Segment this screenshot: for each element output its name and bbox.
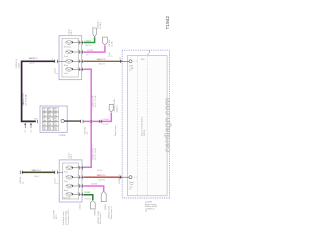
off-page connector (violet, down) xyxy=(101,191,106,202)
svg-text:CLS22: CLS22 xyxy=(87,50,94,52)
bulb park (bottom box) xyxy=(64,166,84,174)
svg-text:Reverse: Reverse xyxy=(64,46,72,48)
wire RD stop/turn (bottom, to BCM) xyxy=(84,176,123,178)
svg-text:C1: C1 xyxy=(25,130,27,132)
bulb stop/turn (top box) xyxy=(57,59,84,67)
svg-text:SBB27 14: SBB27 14 xyxy=(97,175,107,177)
fuse box left pin tick xyxy=(37,120,39,123)
fuse detail box F38 xyxy=(40,106,67,132)
fuse box pin circle xyxy=(61,119,64,122)
inline connector stub 2 xyxy=(30,123,33,133)
wire VT (fuse box to off-page, horizontal) xyxy=(83,113,111,122)
svg-text:19-LB 4: 19-LB 4 xyxy=(116,105,118,113)
svg-text:CLS54: CLS54 xyxy=(103,119,110,121)
BCM inner box xyxy=(127,56,167,196)
svg-text:30: 30 xyxy=(147,54,149,56)
wire GN reverse (top) xyxy=(84,37,95,42)
BCM pin circle top (pin 12) xyxy=(129,60,132,63)
svg-text:F28: F28 xyxy=(48,123,51,125)
bulb turn (top box) xyxy=(64,67,84,75)
svg-text:CLS23: CLS23 xyxy=(91,184,98,186)
wire VT stop (bottom, to off-page down) xyxy=(84,186,104,191)
svg-text:Connector C4113: Connector C4113 xyxy=(67,209,70,225)
BCM internal dashed line 2 xyxy=(146,56,148,196)
svg-text:Body Control Module: Body Control Module xyxy=(141,116,144,136)
svg-text:SBB27 14: SBB27 14 xyxy=(32,170,42,172)
off-page connector (violet, mid up) xyxy=(109,104,113,112)
svg-text:GN-O: GN-O xyxy=(34,176,40,178)
svg-text:F27: F27 xyxy=(54,123,57,125)
wire BN stop (top, to BCM) xyxy=(84,60,123,62)
top box right pin ticks xyxy=(80,41,83,71)
svg-text:PK-J: PK-J xyxy=(71,154,73,158)
junction node xyxy=(90,120,92,122)
wire VT park (top) xyxy=(84,46,105,53)
pin ticks mid wire xyxy=(99,120,101,123)
svg-text:Reverse: Reverse xyxy=(63,197,71,199)
top lamp assembly inner box xyxy=(62,38,78,77)
inline connector stub 1 xyxy=(24,123,27,133)
svg-text:F35: F35 xyxy=(43,113,46,115)
svg-text:1: 1 xyxy=(92,26,93,28)
svg-text:S4054: S4054 xyxy=(105,203,107,210)
svg-text:F26: F26 xyxy=(43,127,46,129)
bottom lamp assembly outer box xyxy=(59,160,82,202)
off-page connector (violet, up) xyxy=(103,37,108,45)
svg-text:19-LB: 19-LB xyxy=(111,41,113,47)
svg-text:CLS34: CLS34 xyxy=(85,40,92,42)
bottom box right pin ticks xyxy=(80,166,83,196)
svg-text:GN-OG: GN-OG xyxy=(85,45,92,47)
off-page connector (green, up) xyxy=(93,28,96,37)
svg-text:1: 1 xyxy=(78,175,79,177)
svg-text:4: 4 xyxy=(78,50,79,52)
svg-text:12: 12 xyxy=(119,58,121,60)
svg-text:GN-OG: GN-OG xyxy=(85,198,92,200)
bulb turn (bottom box) xyxy=(57,172,84,183)
svg-text:Stop Lamps: Stop Lamps xyxy=(114,125,117,136)
bulb park (top box) xyxy=(64,50,84,58)
BCM pin circle bottom xyxy=(129,176,132,179)
svg-text:F24: F24 xyxy=(54,127,57,129)
BCM pin dashed stub top xyxy=(132,60,137,62)
svg-text:C2280F: C2280F xyxy=(59,135,67,137)
svg-text:4: 4 xyxy=(94,189,95,191)
wire VT turn (top, down) xyxy=(84,69,92,167)
svg-text:F30: F30 xyxy=(54,118,57,120)
pin tick at BCM bottom entry xyxy=(119,176,121,179)
bulb reverse (top box) xyxy=(64,41,84,49)
svg-text:F38: F38 xyxy=(43,109,46,111)
pin tick at BCM top entry xyxy=(119,60,121,63)
svg-text:Stop Lamps 4: Stop Lamps 4 xyxy=(110,206,113,219)
svg-text:1: 1 xyxy=(78,59,79,61)
svg-text:C2: C2 xyxy=(31,130,33,132)
svg-text:6: 6 xyxy=(78,192,79,194)
svg-text:GY-O: GY-O xyxy=(30,63,35,65)
wire GN-O feed (olive, bottom left) xyxy=(22,171,55,173)
svg-text:F34: F34 xyxy=(48,113,51,115)
fuse box output stub xyxy=(64,120,80,122)
svg-text:F37: F37 xyxy=(48,109,51,111)
BCM internal dashed line 1 xyxy=(136,56,138,196)
svg-text:T1942: T1942 xyxy=(165,16,171,30)
bulb stop (bottom box) xyxy=(64,184,84,192)
svg-text:F31: F31 xyxy=(48,118,51,120)
top box left pin tick xyxy=(55,60,58,63)
svg-text:Turn: Turn xyxy=(64,181,68,183)
svg-text:Park: Park xyxy=(64,172,68,174)
off-page connector (green, down) xyxy=(90,200,95,209)
pin ticks after fuse box xyxy=(80,120,82,123)
svg-text:F38: F38 xyxy=(34,119,37,121)
BCM module U1 (outer dotted box) xyxy=(122,50,169,198)
svg-text:Turn: Turn xyxy=(64,73,68,75)
svg-text:12: 12 xyxy=(129,70,131,72)
svg-text:Rev Lamps 6: Rev Lamps 6 xyxy=(100,211,102,224)
svg-text:F29: F29 xyxy=(43,123,46,125)
svg-text:SBB38 12: SBB38 12 xyxy=(29,58,39,60)
svg-text:19-LB: 19-LB xyxy=(97,170,103,172)
bulb reverse (bottom box) xyxy=(63,192,84,199)
svg-text:3: 3 xyxy=(78,166,79,168)
svg-text:BU-OG: BU-OG xyxy=(99,180,106,182)
svg-text:GY-O 19-LB: GY-O 19-LB xyxy=(25,94,27,105)
bottom lamp assembly inner box xyxy=(62,163,78,199)
svg-text:19-LB: 19-LB xyxy=(18,62,20,68)
svg-text:19-LB 4: 19-LB 4 xyxy=(100,21,102,29)
svg-text:F38: F38 xyxy=(141,59,144,61)
svg-text:BN-OG: BN-OG xyxy=(99,64,106,66)
svg-text:(BCM): (BCM) xyxy=(144,130,146,136)
svg-text:PK-J: PK-J xyxy=(56,215,58,219)
svg-text:F36: F36 xyxy=(54,109,57,111)
svg-text:Park: Park xyxy=(64,56,68,58)
svg-text:S4054: S4054 xyxy=(94,209,96,216)
svg-text:PK-J: PK-J xyxy=(71,30,73,34)
svg-text:F25: F25 xyxy=(48,127,51,129)
svg-text:VT-GY: VT-GY xyxy=(103,124,110,126)
BCM pin dashed stub bottom xyxy=(132,176,137,178)
svg-text:SBB57 32: SBB57 32 xyxy=(97,59,107,61)
svg-text:cardiagn.com: cardiagn.com xyxy=(162,97,172,152)
wire GN reverse (bottom, to off-page down) xyxy=(84,195,93,200)
svg-text:C4113: C4113 xyxy=(80,203,82,210)
wire GY-O feed (dark, L-shaped) xyxy=(22,61,55,121)
top lamp assembly outer box xyxy=(59,36,82,80)
svg-text:3: 3 xyxy=(78,67,79,69)
svg-text:F32: F32 xyxy=(43,118,46,120)
fuse grid cells xyxy=(42,108,58,131)
svg-text:F33: F33 xyxy=(54,113,57,115)
svg-text:6: 6 xyxy=(78,41,79,43)
svg-text:23: 23 xyxy=(129,189,131,191)
bottom box left pin ticks xyxy=(55,171,58,174)
BCM top-right pin mark xyxy=(148,50,150,53)
svg-text:52: 52 xyxy=(145,211,147,213)
svg-text:CLS34: CLS34 xyxy=(84,192,91,194)
svg-text:VT-GY 19-LB: VT-GY 19-LB xyxy=(95,95,97,108)
svg-text:VT-GY 19-LB: VT-GY 19-LB xyxy=(95,147,97,160)
svg-text:4: 4 xyxy=(78,184,79,186)
